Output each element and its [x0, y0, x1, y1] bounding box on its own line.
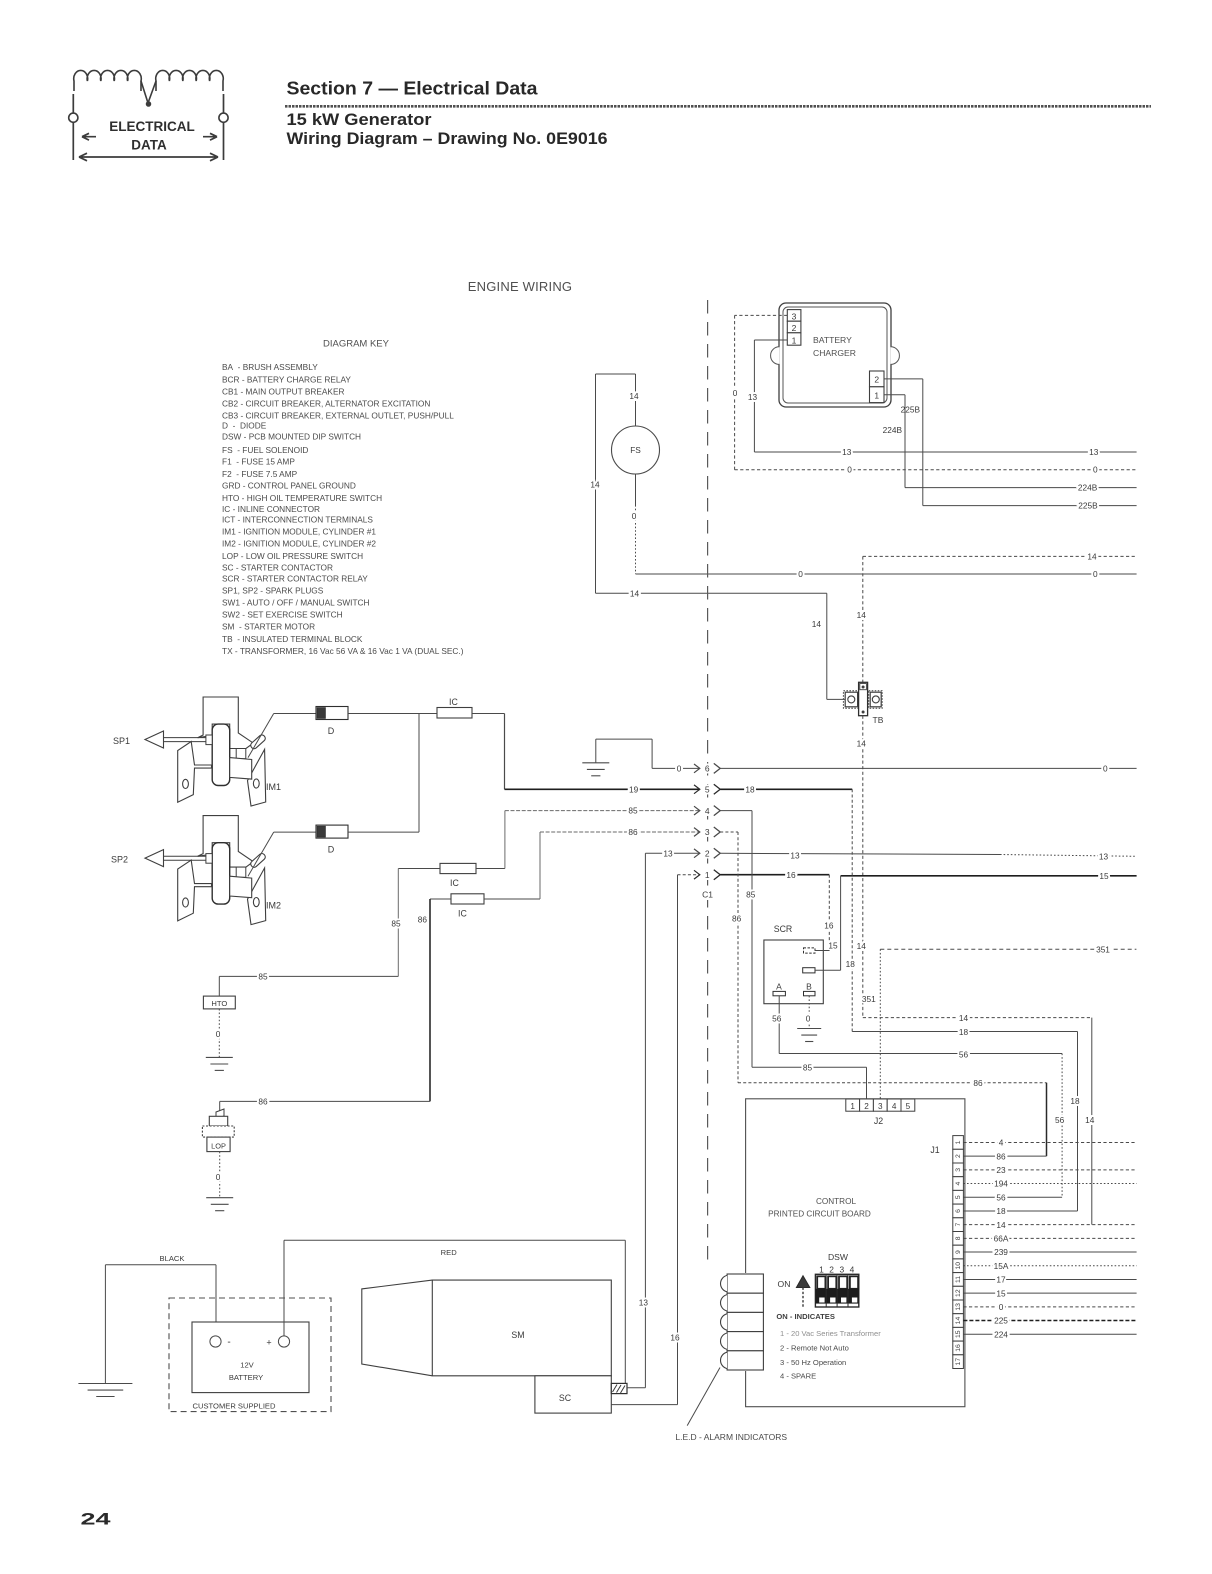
terminal 4 wire 85: [505, 810, 700, 812]
wire 56 from SCR A: [778, 996, 780, 1054]
svg-text:IM2: IM2: [266, 901, 281, 911]
svg-text:85: 85: [258, 971, 268, 981]
svg-text:TB - INSULATED TERMINAL BLOCK: TB - INSULATED TERMINAL BLOCK: [222, 634, 363, 644]
wire 0 from SCR B to ground: [808, 996, 810, 1029]
terminal 6 wire 0: [651, 739, 653, 768]
svg-text:18: 18: [846, 959, 856, 969]
J1 pin 13 wire 0: [963, 1306, 1136, 1308]
svg-text:3: 3: [705, 827, 710, 837]
svg-text:17: 17: [996, 1275, 1006, 1285]
SCR contact 1: [804, 948, 816, 953]
svg-text:3: 3: [955, 1168, 962, 1172]
svg-text:0: 0: [798, 569, 803, 579]
battery positive terminal: [278, 1336, 289, 1347]
inline connector IC3: [451, 894, 484, 904]
J1 pin 14 wire 225: [963, 1320, 1136, 1322]
J1 pin 7 wire 14: [963, 1224, 1136, 1226]
wire 16 down to starter contactor SC: [677, 875, 679, 1405]
frame ground left: [104, 1265, 106, 1384]
12V battery: [192, 1322, 309, 1393]
LED alarm indicators: [721, 1273, 765, 1371]
wire 351 from J2 pin 3: [879, 949, 881, 1099]
svg-text:6: 6: [705, 764, 710, 774]
wire 16 into SC: [611, 1404, 677, 1406]
svg-text:IC: IC: [458, 909, 467, 919]
svg-text:1: 1: [874, 391, 879, 401]
svg-text:IC: IC: [449, 697, 458, 707]
svg-text:1: 1: [705, 870, 710, 880]
svg-text:C1: C1: [702, 890, 713, 900]
svg-text:14: 14: [629, 391, 639, 401]
J1 pin 9 wire 239: [963, 1251, 1136, 1253]
svg-text:IC - INLINE CONNECTOR: IC - INLINE CONNECTOR: [222, 504, 320, 514]
svg-text:ICT - INTERCONNECTION TERMINAL: ICT - INTERCONNECTION TERMINALS: [222, 515, 373, 525]
svg-text:SP1, SP2 - SPARK PLUGS: SP1, SP2 - SPARK PLUGS: [222, 586, 324, 596]
wire IC2 right to terminal 4: [476, 868, 505, 870]
wire 14 horizontal to TB: [596, 592, 827, 594]
wire 14 horizontal to J1 pin 7 drop: [863, 1017, 1092, 1019]
diode D2: [316, 825, 348, 838]
svg-text:14: 14: [959, 1013, 969, 1023]
wire 56 drop to J1 pin 5: [1061, 1054, 1063, 1198]
starter contactor SC: [535, 1376, 611, 1413]
wire 15 from SCR to right edge: [841, 875, 1137, 877]
svg-text:4 - SPARE: 4 - SPARE: [780, 1372, 816, 1381]
svg-text:CB3 - CIRCUIT BREAKER, EXTERNA: CB3 - CIRCUIT BREAKER, EXTERNAL OUTLET, …: [222, 411, 454, 421]
svg-text:85: 85: [746, 889, 756, 899]
wire 13 from charger pin 1: [754, 339, 787, 341]
LED leader line: [687, 1368, 720, 1426]
svg-text:225B: 225B: [901, 405, 921, 415]
svg-text:HTO: HTO: [211, 999, 227, 1008]
svg-text:SP2: SP2: [111, 855, 128, 865]
svg-text:351: 351: [862, 994, 876, 1004]
wire from 14 line into TB left terminal: [827, 698, 845, 700]
wire IC3 right to terminal 3: [484, 898, 540, 900]
wire 18 horizontal to J1 pin 6 drop: [852, 1031, 1077, 1033]
svg-text:ENGINE WIRING: ENGINE WIRING: [468, 279, 572, 294]
wire 0 from LOP to ground: [219, 1152, 221, 1198]
wire IC1 to terminal 5: [472, 713, 505, 715]
svg-text:SM: SM: [511, 1330, 524, 1340]
starter contactor relay SCR: [764, 940, 823, 1004]
J1 pin 12 wire 15: [963, 1292, 1136, 1294]
battery charger pin 1 bottom: [870, 387, 885, 403]
svg-text:16: 16: [824, 921, 834, 931]
svg-text:19: 19: [629, 785, 639, 795]
svg-text:+: +: [266, 1338, 271, 1348]
svg-text:0: 0: [216, 1029, 221, 1039]
svg-text:3: 3: [839, 1265, 844, 1275]
battery charger pin 2 bottom: [870, 371, 885, 387]
svg-text:13: 13: [663, 848, 673, 858]
LOP ground: [206, 1198, 233, 1211]
svg-text:1: 1: [819, 1265, 824, 1275]
svg-text:86: 86: [973, 1078, 983, 1088]
svg-text:3: 3: [792, 311, 797, 321]
wire IC2 left to HTO 85: [398, 868, 440, 870]
svg-text:14: 14: [857, 739, 867, 749]
svg-text:ON - INDICATES: ON - INDICATES: [776, 1312, 835, 1321]
svg-text:14: 14: [857, 610, 867, 620]
BLACK battery cable: [105, 1264, 216, 1266]
svg-text:7: 7: [955, 1223, 962, 1227]
svg-text:14: 14: [857, 941, 867, 951]
svg-text:SCR - STARTER CONTACTOR RELAY: SCR - STARTER CONTACTOR RELAY: [222, 573, 368, 583]
J1 pin 2 wire 86: [963, 1155, 1046, 1157]
svg-text:239: 239: [994, 1247, 1008, 1257]
svg-text:14: 14: [955, 1317, 962, 1325]
svg-text:224B: 224B: [1078, 483, 1098, 493]
svg-text:CHARGER: CHARGER: [813, 348, 856, 358]
svg-text:SW2 - SET EXERCISE SWITCH: SW2 - SET EXERCISE SWITCH: [222, 610, 343, 620]
battery charger module: [771, 303, 900, 407]
svg-text:13: 13: [842, 447, 852, 457]
svg-text:2: 2: [829, 1265, 834, 1275]
svg-text:4: 4: [705, 806, 710, 816]
svg-text:18: 18: [996, 1206, 1006, 1216]
svg-text:14: 14: [1087, 551, 1097, 561]
svg-text:12: 12: [955, 1289, 962, 1297]
wire 85 from terminal 4 to J2 pin 2: [751, 811, 753, 1068]
SCR ground: [797, 1029, 821, 1042]
svg-text:15: 15: [955, 1330, 962, 1338]
svg-text:3: 3: [878, 1102, 883, 1111]
battery negative terminal: [210, 1336, 221, 1347]
J1 pin 3 wire 23: [963, 1169, 1136, 1171]
svg-text:CONTROL: CONTROL: [816, 1197, 856, 1206]
svg-text:56: 56: [959, 1050, 969, 1060]
svg-text:15A: 15A: [994, 1261, 1009, 1271]
svg-text:10: 10: [955, 1262, 962, 1270]
svg-text:2 - Remote Not Auto: 2 - Remote Not Auto: [780, 1344, 849, 1353]
svg-text:CB2 - CIRCUIT BREAKER, ALTERNA: CB2 - CIRCUIT BREAKER, ALTERNATOR EXCITA…: [222, 399, 430, 409]
svg-text:66A: 66A: [994, 1233, 1009, 1243]
wire 86 from LOP to IC3: [220, 1100, 430, 1102]
terminal 2 wire 13: [645, 852, 699, 854]
svg-text:224B: 224B: [883, 425, 903, 435]
svg-text:0: 0: [677, 763, 682, 773]
high oil temperature switch HTO: [203, 996, 235, 1009]
battery charger pin 2 top: [787, 321, 801, 333]
terminal 3 wire 86: [540, 831, 700, 833]
svg-text:15: 15: [1099, 871, 1109, 881]
svg-text:8: 8: [955, 1236, 962, 1240]
svg-text:0: 0: [1093, 569, 1098, 579]
svg-text:18: 18: [959, 1027, 969, 1037]
svg-text:FS: FS: [630, 445, 641, 455]
svg-text:L.E.D - ALARM INDICATORS: L.E.D - ALARM INDICATORS: [675, 1432, 787, 1442]
svg-text:F1 - FUSE 15 AMP: F1 - FUSE 15 AMP: [222, 457, 295, 467]
svg-text:RED: RED: [441, 1248, 458, 1257]
wire 224B from charger pin 1: [884, 394, 905, 396]
inline connector IC2: [440, 863, 476, 873]
wire 86 from terminal 3 to J1 pin 2: [737, 832, 739, 1083]
svg-text:15: 15: [996, 1288, 1006, 1298]
svg-text:2: 2: [874, 375, 879, 385]
svg-text:56: 56: [772, 1014, 782, 1024]
svg-text:13: 13: [790, 851, 800, 861]
wire 0 from charger pin 3: [735, 314, 788, 316]
J1 pin 10 wire 15A: [963, 1265, 1136, 1267]
svg-text:0: 0: [847, 465, 852, 475]
svg-text:86: 86: [628, 827, 638, 837]
connector J1: [953, 1136, 964, 1369]
svg-text:BA - BRUSH ASSEMBLY: BA - BRUSH ASSEMBLY: [222, 362, 318, 372]
svg-text:56: 56: [996, 1192, 1006, 1202]
svg-text:9: 9: [955, 1250, 962, 1254]
svg-text:IM2 - IGNITION MODULE, CYLINDE: IM2 - IGNITION MODULE, CYLINDER #2: [222, 539, 376, 549]
svg-text:1: 1: [850, 1102, 855, 1111]
wire 14 dashed from TB down to control board: [862, 716, 864, 1018]
svg-text:3 - 50 Hz Operation: 3 - 50 Hz Operation: [780, 1358, 846, 1367]
svg-text:13: 13: [1089, 447, 1099, 457]
svg-text:LOP: LOP: [211, 1141, 226, 1150]
svg-text:86: 86: [258, 1096, 268, 1106]
wire 18 from terminal 5 down to control board: [851, 789, 853, 1031]
svg-text:IM1 - IGNITION MODULE, CYLINDE: IM1 - IGNITION MODULE, CYLINDER #1: [222, 526, 376, 536]
svg-text:BATTERY: BATTERY: [229, 1373, 263, 1382]
svg-text:Section 7 — Electrical Data: Section 7 — Electrical Data: [287, 79, 539, 99]
svg-text:ELECTRICAL: ELECTRICAL: [109, 119, 195, 134]
wire 0 from HTO to ground: [218, 1009, 220, 1058]
svg-text:CUSTOMER SUPPLIED: CUSTOMER SUPPLIED: [193, 1402, 277, 1411]
low oil pressure switch LOP: [202, 1101, 234, 1151]
wire IM2 to diode D2: [248, 832, 274, 876]
svg-text:GRD - CONTROL PANEL GROUND: GRD - CONTROL PANEL GROUND: [222, 481, 356, 491]
svg-text:11: 11: [955, 1276, 962, 1283]
connector J2: [846, 1099, 915, 1111]
svg-text:194: 194: [994, 1179, 1008, 1189]
J1 pin 1 wire 4: [963, 1141, 1136, 1143]
svg-text:0: 0: [806, 1014, 811, 1024]
svg-text:5: 5: [955, 1195, 962, 1199]
svg-text:86: 86: [996, 1151, 1006, 1161]
logo: electrical data section icon: [69, 70, 228, 160]
svg-text:TB: TB: [873, 715, 884, 725]
svg-text:13: 13: [1099, 852, 1109, 862]
fuel solenoid FS: [612, 426, 660, 474]
svg-text:J1: J1: [930, 1145, 939, 1155]
svg-text:5: 5: [906, 1102, 911, 1111]
svg-text:2: 2: [792, 323, 797, 333]
battery charger pin 1 top: [787, 333, 801, 345]
svg-text:0: 0: [632, 511, 637, 521]
wire 16 down to SCR contact: [828, 875, 830, 951]
svg-text:IC: IC: [450, 878, 459, 888]
engine ground at terminal 6: [596, 738, 652, 740]
svg-text:4: 4: [955, 1181, 962, 1185]
svg-text:SC: SC: [559, 1393, 572, 1403]
svg-text:DSW - PCB MOUNTED DIP SWITCH: DSW - PCB MOUNTED DIP SWITCH: [222, 432, 361, 442]
battery charger pin 3: [787, 310, 801, 322]
wire 13 down to starter contactor: [644, 853, 646, 1388]
svg-text:PRINTED CIRCUIT BOARD: PRINTED CIRCUIT BOARD: [768, 1209, 871, 1218]
svg-text:13: 13: [639, 1298, 649, 1308]
svg-text:HTO - HIGH OIL TEMPERATURE SWI: HTO - HIGH OIL TEMPERATURE SWITCH: [222, 493, 382, 503]
svg-text:D: D: [328, 726, 335, 736]
svg-text:86: 86: [418, 915, 428, 925]
wire IC3 left to LOP 86: [430, 898, 451, 900]
control printed circuit board outline: [746, 1099, 965, 1407]
svg-text:TX - TRANSFORMER, 16 Vac 56 VA: TX - TRANSFORMER, 16 Vac 56 VA & 16 Vac …: [222, 646, 464, 656]
svg-text:4: 4: [999, 1138, 1004, 1148]
svg-text:J2: J2: [874, 1116, 883, 1126]
terminal 5 wire 19/18: [505, 788, 700, 790]
svg-text:14: 14: [996, 1220, 1006, 1230]
svg-text:D: D: [328, 845, 335, 855]
J1 pin 11 wire 17: [963, 1278, 1136, 1280]
terminal 1 wire 16: [678, 874, 700, 876]
svg-text:A: A: [776, 982, 782, 992]
svg-text:2: 2: [864, 1102, 869, 1111]
insulated terminal block TB: [843, 682, 882, 715]
svg-text:SW1 - AUTO / OFF / MANUAL SWIT: SW1 - AUTO / OFF / MANUAL SWITCH: [222, 597, 370, 607]
svg-text:12V: 12V: [240, 1361, 254, 1370]
DSW ON arrow: [796, 1276, 809, 1288]
svg-text:-: -: [227, 1337, 230, 1348]
HTO ground: [206, 1057, 233, 1070]
svg-text:B: B: [806, 982, 812, 992]
wire IM1 to diode D1: [248, 714, 274, 758]
svg-text:1 - 20 Vac Series Transformer: 1 - 20 Vac Series Transformer: [780, 1329, 881, 1338]
svg-text:17: 17: [955, 1358, 962, 1366]
svg-text:14: 14: [812, 619, 822, 629]
svg-text:13: 13: [955, 1303, 962, 1311]
customer supplied dashed enclosure: [169, 1298, 331, 1412]
svg-text:225B: 225B: [1078, 501, 1098, 511]
J1 pin 4 wire 194: [963, 1183, 1136, 1185]
svg-text:56: 56: [1055, 1115, 1065, 1125]
svg-text:F2 - FUSE 7.5 AMP: F2 - FUSE 7.5 AMP: [222, 469, 298, 479]
SCR contact 2: [803, 968, 815, 973]
svg-text:ON: ON: [778, 1279, 791, 1289]
svg-text:0: 0: [733, 388, 738, 398]
svg-text:16: 16: [670, 1333, 680, 1343]
svg-text:86: 86: [732, 913, 742, 923]
svg-text:18: 18: [1070, 1096, 1080, 1106]
svg-text:SC - STARTER CONTACTOR: SC - STARTER CONTACTOR: [222, 562, 333, 572]
svg-text:16: 16: [955, 1344, 962, 1352]
svg-text:LOP - LOW OIL PRESSURE SWITCH: LOP - LOW OIL PRESSURE SWITCH: [222, 551, 363, 561]
svg-text:BATTERY: BATTERY: [813, 335, 852, 345]
svg-text:1: 1: [955, 1140, 962, 1144]
svg-text:6: 6: [955, 1209, 962, 1213]
svg-text:16: 16: [786, 870, 796, 880]
wire 13 into SC terminal: [627, 1387, 645, 1389]
svg-text:224: 224: [994, 1329, 1008, 1339]
wire D2 joining D1 output: [348, 831, 419, 833]
svg-text:0: 0: [216, 1172, 221, 1182]
svg-text:BLACK: BLACK: [160, 1254, 185, 1263]
svg-text:IM1: IM1: [266, 782, 281, 792]
svg-text:351: 351: [1096, 945, 1110, 955]
wire 0 from FS bottom: [635, 474, 637, 505]
J1 pin 6 wire 18: [963, 1210, 1077, 1212]
connector C1 dashed divider line: [707, 300, 709, 1265]
wire 14 dashed from TB up to right edge: [862, 556, 864, 682]
wire D1 to inline connector IC1: [348, 713, 437, 715]
J1 pin 15 wire 224: [963, 1333, 1136, 1335]
svg-text:14: 14: [590, 480, 600, 490]
svg-text:DSW: DSW: [828, 1252, 849, 1262]
svg-text:DIAGRAM KEY: DIAGRAM KEY: [323, 339, 390, 350]
wire 85 from HTO to IC2: [218, 976, 220, 996]
svg-text:0: 0: [1093, 465, 1098, 475]
svg-text:SP1: SP1: [113, 736, 130, 746]
svg-text:2: 2: [955, 1154, 962, 1158]
wire 225B from charger pin 2: [884, 378, 923, 380]
svg-text:23: 23: [996, 1165, 1006, 1175]
inline connector IC1: [437, 708, 472, 719]
svg-text:24: 24: [81, 1510, 112, 1529]
svg-text:D - DIODE: D - DIODE: [222, 421, 267, 431]
svg-text:Wiring Diagram – Drawing No. 0: Wiring Diagram – Drawing No. 0E9016: [287, 130, 608, 148]
ignition module IM2: [145, 816, 267, 925]
svg-text:4: 4: [850, 1265, 855, 1275]
svg-text:15: 15: [828, 941, 838, 951]
J1 pin 8 wire 66A: [963, 1237, 1136, 1239]
svg-text:13: 13: [748, 392, 758, 402]
svg-text:2: 2: [705, 849, 710, 859]
svg-text:0: 0: [999, 1302, 1004, 1312]
svg-text:15 kW Generator: 15 kW Generator: [287, 111, 433, 129]
wire 14 from FS top: [635, 374, 637, 426]
svg-text:85: 85: [803, 1063, 813, 1073]
svg-text:5: 5: [705, 785, 710, 795]
RED battery cable: [283, 1240, 285, 1336]
svg-text:FS - FUEL SOLENOID: FS - FUEL SOLENOID: [222, 445, 308, 455]
svg-text:0: 0: [1103, 763, 1108, 773]
svg-text:1: 1: [792, 335, 797, 345]
svg-text:BCR - BATTERY CHARGE RELAY: BCR - BATTERY CHARGE RELAY: [222, 374, 351, 384]
J1 pin 5 wire 56: [963, 1196, 1062, 1198]
svg-text:4: 4: [892, 1102, 897, 1111]
svg-text:85: 85: [628, 806, 638, 816]
ignition module IM1: [145, 697, 267, 806]
svg-text:18: 18: [745, 785, 755, 795]
SC terminal: [611, 1383, 627, 1393]
diode D1: [316, 707, 348, 720]
svg-text:CB1 - MAIN OUTPUT BREAKER: CB1 - MAIN OUTPUT BREAKER: [222, 387, 344, 397]
starter motor SM: [432, 1280, 611, 1376]
svg-text:14: 14: [630, 588, 640, 598]
svg-text:225: 225: [994, 1316, 1008, 1326]
svg-text:14: 14: [1085, 1115, 1095, 1125]
svg-text:SCR: SCR: [774, 924, 793, 934]
wire 0 horizontal run to right edge: [636, 573, 1137, 575]
svg-text:85: 85: [391, 919, 401, 929]
svg-text:DATA: DATA: [131, 138, 167, 153]
svg-text:SM - STARTER MOTOR: SM - STARTER MOTOR: [222, 622, 315, 632]
header rule: [285, 105, 1151, 108]
